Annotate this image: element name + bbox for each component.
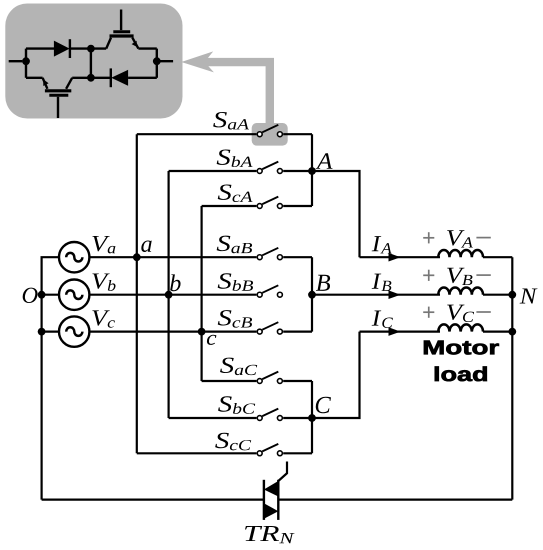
output A group vertical xyxy=(311,134,313,206)
node a dot xyxy=(133,253,141,261)
detail box: bottom branch wire left xyxy=(26,77,43,79)
label load xyxy=(435,367,487,382)
inductor V_B xyxy=(438,288,483,295)
label O xyxy=(23,288,38,303)
right bus wire xyxy=(511,257,513,499)
diode D1 (points right) xyxy=(54,41,70,57)
wire S_bC row right xyxy=(283,417,312,419)
wire C to I_C branch xyxy=(312,332,360,418)
wire row c xyxy=(89,331,256,333)
left bus wire xyxy=(42,257,59,499)
wire Vc left terminal xyxy=(42,331,59,333)
wire S_aB row right xyxy=(283,256,312,258)
IGBT T1 (top, gate up) xyxy=(106,10,138,49)
switch highlight (gray) behind S_aA xyxy=(252,123,288,146)
switch S_cC xyxy=(257,444,282,456)
label S_aA xyxy=(213,112,249,130)
detail box: middle vertical wire xyxy=(90,49,92,78)
label S_cA xyxy=(218,184,253,202)
wire S_cC row left xyxy=(137,452,257,454)
label V_a xyxy=(92,236,115,253)
detail box: left node dot xyxy=(22,57,30,65)
label TR_N xyxy=(245,526,294,543)
switch S_aA xyxy=(257,125,282,137)
AC source V_c xyxy=(59,316,89,346)
wire I_B row xyxy=(312,294,440,296)
switch S_bA xyxy=(257,162,282,174)
wire S_bA row left xyxy=(169,170,257,172)
wire S_cA row left xyxy=(202,205,257,207)
output B group vertical xyxy=(311,257,313,331)
label I_C xyxy=(372,311,393,328)
output C group vertical xyxy=(311,381,313,453)
current arrow I_C xyxy=(389,327,401,336)
AC source V_b xyxy=(59,280,89,310)
label S_bB xyxy=(218,273,253,291)
label I_A xyxy=(372,236,392,253)
plus minus signs V_A xyxy=(423,232,491,243)
label c xyxy=(207,335,216,345)
wire A to I_A branch xyxy=(312,171,360,257)
plus minus signs V_C xyxy=(423,307,491,318)
wire S_bC row left xyxy=(169,417,257,419)
detail box: right terminal stub xyxy=(157,60,173,62)
label S_aC xyxy=(220,358,257,376)
phase b vertical wire xyxy=(168,171,170,418)
label C xyxy=(316,397,331,413)
label V_C xyxy=(447,305,474,322)
label b xyxy=(170,274,180,291)
triac TR_N xyxy=(264,462,287,520)
detail box: right top vertical xyxy=(156,49,158,78)
node b dot xyxy=(165,291,173,299)
left bus Vc junction dot xyxy=(38,328,46,336)
bottom wire left segment xyxy=(42,499,264,501)
bottom wire right segment xyxy=(278,499,512,501)
right bus V_C junction dot xyxy=(508,328,516,336)
inductor V_C xyxy=(438,324,483,331)
label A xyxy=(316,153,333,169)
plus minus signs V_B xyxy=(423,270,491,281)
switch S_cA xyxy=(257,197,282,209)
detail box: middle top node dot xyxy=(87,45,95,53)
switch S_bC xyxy=(257,409,282,421)
callout arrow (gray) from S_aA to detail box xyxy=(202,62,270,127)
label S_bA xyxy=(217,149,253,167)
wire S_cB row right xyxy=(283,331,312,333)
switch S_cB xyxy=(257,322,282,334)
label V_B xyxy=(447,268,472,285)
label V_A xyxy=(447,230,473,247)
node O dot xyxy=(38,291,46,299)
current arrow I_A xyxy=(389,253,401,262)
AC source V_a xyxy=(59,242,89,272)
wire row a xyxy=(89,256,256,258)
node c dot xyxy=(198,328,206,336)
node C dot xyxy=(308,414,316,422)
wire S_aA row left xyxy=(137,133,257,135)
wire S_cC row right xyxy=(283,452,312,454)
wire Vb left terminal xyxy=(42,294,59,296)
wire S_cA row right xyxy=(283,205,312,207)
inductor V_A xyxy=(438,250,483,257)
detail box: top branch wire right xyxy=(138,47,156,49)
wire S_aC row left xyxy=(202,380,257,382)
diode D2 (points left) xyxy=(110,68,112,87)
detail box: middle bottom node dot xyxy=(87,74,95,82)
switch S_aC xyxy=(257,372,282,384)
phase c vertical wire xyxy=(201,206,203,381)
label S_aB xyxy=(217,236,252,254)
label V_b xyxy=(92,273,115,290)
detail box: left terminal stub xyxy=(9,60,23,62)
wire I_C row xyxy=(360,331,441,333)
wire V_C to right bus xyxy=(483,331,512,333)
wire S_aC row right xyxy=(283,380,312,382)
detail box: bottom branch wire middle xyxy=(72,77,110,79)
detail box: left vertical wire xyxy=(25,49,27,78)
label S_cC xyxy=(215,433,251,451)
label I_B xyxy=(372,274,392,291)
node B dot xyxy=(308,291,316,299)
label N xyxy=(520,288,538,303)
label V_c xyxy=(92,310,114,327)
node N dot xyxy=(508,291,516,299)
switch S_aB xyxy=(257,248,282,260)
wire V_A to right bus xyxy=(483,256,512,258)
detail box: top branch wire middle xyxy=(70,47,106,49)
label Motor xyxy=(424,341,499,355)
current arrow I_B xyxy=(389,290,401,299)
wire I_A row xyxy=(360,256,441,258)
label a xyxy=(141,241,151,253)
phase a vertical wire xyxy=(136,134,138,453)
IGBT T2 (bottom, gate down) xyxy=(43,78,73,118)
label S_cB xyxy=(218,310,252,328)
detail box: top branch wire left xyxy=(26,47,54,49)
wire row b xyxy=(89,294,256,296)
bidirectional switch detail box (gray) xyxy=(5,4,182,119)
label B xyxy=(316,275,330,291)
wire V_B to right bus xyxy=(483,294,512,296)
detail box: right node dot xyxy=(153,57,161,65)
wire S_aA row right xyxy=(283,133,312,135)
node A dot xyxy=(308,167,316,175)
wire S_bA row right xyxy=(283,170,312,172)
detail box: bottom branch wire right xyxy=(128,77,157,79)
label S_bC xyxy=(218,396,255,414)
switch S_bB xyxy=(257,285,282,297)
